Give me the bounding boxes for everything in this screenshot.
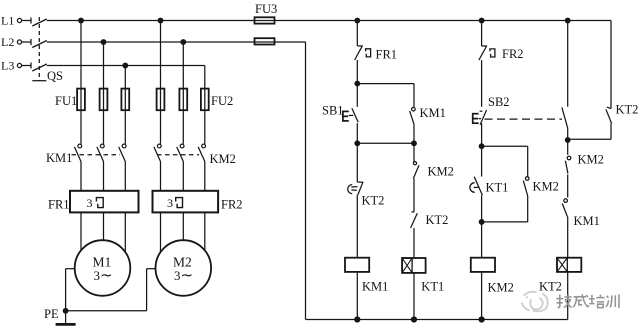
- node L3-M1: [123, 63, 128, 68]
- wire M1 phase U lower: [80, 213, 82, 254]
- svg-text:KM1: KM1: [420, 106, 446, 120]
- terminal L2: [1, 35, 22, 49]
- wire L1 lead: [22, 20, 31, 22]
- node rail KM1: [355, 317, 360, 322]
- svg-text:KM1: KM1: [362, 280, 388, 294]
- wire coil KT1 to rail: [413, 273, 415, 320]
- wire M2 phase U lower: [160, 213, 162, 254]
- svg-text:FR2: FR2: [221, 198, 243, 212]
- contactor contact KM2 branch2: [413, 162, 419, 179]
- svg-text:3∼: 3∼: [94, 268, 113, 284]
- wire SB2 to node C: [481, 123, 483, 146]
- wire M1 phase V upper: [103, 42, 105, 144]
- contactor KM2 main link: [157, 154, 199, 156]
- wire L2 lead: [22, 41, 31, 43]
- wire branch1 upper: [356, 21, 358, 46]
- contactor KM1 main pole 2: [97, 144, 104, 161]
- contactor KM2 main pole 2: [177, 144, 184, 161]
- node L1-M2: [158, 18, 163, 23]
- timer contact KT2 branch5: [606, 107, 612, 123]
- contactor contact KM1 aux: [410, 107, 416, 124]
- wire branch3 upper: [481, 21, 483, 47]
- svg-text:PE: PE: [44, 307, 59, 321]
- svg-text:SB1: SB1: [322, 104, 344, 118]
- relay contact FR2 NC: [479, 46, 495, 60]
- wire M2 phase W upper: [204, 66, 206, 144]
- svg-text:KM1: KM1: [46, 151, 72, 165]
- coil KT1: [402, 258, 426, 273]
- svg-text:FR1: FR1: [48, 198, 70, 212]
- svg-text:FU3: FU3: [255, 2, 277, 16]
- coil KT2: [557, 258, 581, 272]
- wire branch5 upper: [610, 21, 612, 109]
- fuse FU3 pole 1: [255, 17, 275, 23]
- wire N4 to KM2: [567, 140, 569, 155]
- motor M1: [75, 240, 131, 296]
- svg-text:L2: L2: [1, 35, 14, 49]
- node L2-M2: [181, 40, 186, 45]
- wire KM2 to KM1 branch4: [567, 175, 569, 198]
- motor M2: [156, 240, 212, 296]
- pushbutton SB2 linked contact: [562, 107, 568, 128]
- wire branch4 upper: [567, 21, 569, 107]
- wire node C down: [481, 146, 483, 176]
- switch QS pole 3: [31, 63, 47, 72]
- wire KM1 to coil KT2: [567, 217, 569, 258]
- svg-text:3: 3: [87, 196, 93, 210]
- contactor contact KM2 parallel: [523, 177, 529, 196]
- wire PE bus: [66, 269, 156, 311]
- wire M1 phase V lower: [103, 213, 105, 244]
- wire M2 phase V lower: [182, 213, 184, 244]
- svg-text:KT1: KT1: [486, 181, 509, 195]
- svg-text:KT2: KT2: [539, 280, 562, 294]
- contactor KM2 main pole 3: [198, 144, 205, 161]
- wire KM1 aux to node: [413, 124, 415, 143]
- wire SB1 to node B: [356, 123, 358, 143]
- ground PE: [56, 323, 76, 326]
- fuse FU1 pole 1: [77, 89, 85, 111]
- node C: [479, 144, 484, 149]
- wire KM2 parallel up: [527, 146, 529, 176]
- wire M1 phase W lower: [124, 213, 126, 254]
- wire L2 drop to control rail: [305, 42, 307, 320]
- node A: [355, 81, 360, 86]
- svg-text:KM1: KM1: [574, 214, 600, 228]
- node D: [479, 220, 484, 225]
- fuse FU1 pole 2: [100, 89, 108, 111]
- contactor KM1 main link: [72, 154, 121, 156]
- wire branch5 lower: [568, 123, 611, 139]
- svg-text:3: 3: [167, 196, 173, 210]
- svg-text:KM2: KM2: [210, 152, 236, 166]
- node PE: [63, 309, 68, 314]
- wire M1 phase U mid: [80, 162, 82, 192]
- svg-text:KM2: KM2: [488, 281, 514, 295]
- svg-text:L3: L3: [1, 59, 14, 73]
- relay FR2 heater: [153, 191, 219, 213]
- wire M2 phase U upper: [160, 21, 162, 144]
- svg-text:KM2: KM2: [428, 165, 454, 179]
- watermark text: [556, 294, 619, 308]
- wire node B down: [356, 143, 358, 182]
- svg-text:KT1: KT1: [421, 280, 444, 294]
- wire branch2 to KM2: [413, 143, 415, 161]
- wire L2 rail: [47, 41, 306, 43]
- node L2-M1: [101, 40, 106, 45]
- wire coil KT2 to rail: [567, 272, 569, 320]
- wire linked contact to node N4: [567, 128, 569, 140]
- timer contact KT1 delayed NO: [470, 177, 483, 196]
- svg-text:KT2: KT2: [362, 194, 385, 208]
- svg-text:KT2: KT2: [616, 103, 639, 117]
- wire node A to branch2: [357, 83, 414, 85]
- wire KM2 to KT2: [413, 179, 415, 212]
- relay contact FR1 NC: [355, 46, 371, 60]
- coil KM2: [471, 258, 495, 272]
- fuse FU3 pole 2: [255, 38, 275, 44]
- node rail KM2: [479, 317, 484, 322]
- contactor KM1 main pole 1: [74, 144, 81, 161]
- wire coil KM2 to rail: [481, 272, 483, 320]
- svg-text:FR1: FR1: [376, 48, 398, 62]
- svg-text:3∼: 3∼: [174, 268, 193, 284]
- timer contact KT2 branch2: [411, 212, 418, 228]
- wire L3 lead: [22, 65, 31, 67]
- switch QS link: [32, 17, 46, 81]
- svg-text:FR2: FR2: [502, 47, 524, 61]
- node B: [355, 141, 360, 146]
- wire node D to coil KM2: [481, 222, 483, 258]
- svg-text:KM2: KM2: [578, 153, 604, 167]
- wire node C right: [482, 145, 528, 147]
- wire M1 phase W upper: [124, 66, 126, 144]
- svg-text:QS: QS: [47, 69, 63, 83]
- node branch3 top: [479, 18, 484, 23]
- fuse FU1 pole 3: [121, 89, 129, 111]
- wire M1 phase W mid: [124, 162, 126, 192]
- terminal L1: [1, 14, 22, 28]
- contactor KM1 main pole 3: [119, 144, 126, 161]
- node L1-M1: [79, 18, 84, 23]
- watermark logo: [522, 292, 548, 312]
- wire M1 phase U upper: [80, 21, 82, 144]
- wire L3 rail: [47, 65, 205, 67]
- terminal L3: [1, 59, 22, 73]
- wire M2 phase U mid: [160, 162, 162, 192]
- svg-text:FU1: FU1: [55, 94, 77, 108]
- fuse FU2 pole 1: [157, 89, 165, 111]
- wire branch2 upper: [413, 84, 415, 107]
- svg-text:KM2: KM2: [533, 180, 559, 194]
- wire coil KM1 to rail: [356, 272, 358, 320]
- node branch1 top: [355, 18, 360, 23]
- wire KT2 to coil KT1: [413, 228, 415, 258]
- wire KT2 to coil KM1: [356, 195, 358, 258]
- fuse FU2 pole 2: [179, 89, 187, 111]
- contactor contact KM1 branch4: [562, 199, 567, 217]
- wire KM2 parallel down: [482, 196, 528, 222]
- svg-text:KT2: KT2: [426, 213, 449, 227]
- switch QS pole 2: [31, 39, 47, 48]
- wire L1 rail: [47, 20, 611, 22]
- pushbutton SB2: [472, 110, 487, 125]
- wire branch1 to node A: [356, 60, 358, 84]
- relay FR1 heater: [70, 191, 139, 213]
- switch QS pole 1: [31, 18, 47, 27]
- wire KT1 to node D: [481, 195, 483, 222]
- wire M1 phase V mid: [103, 162, 105, 192]
- wire node B to branch2: [357, 142, 414, 144]
- pushbutton SB1: [342, 108, 358, 122]
- svg-text:L1: L1: [1, 14, 14, 28]
- wire node A to SB1: [356, 84, 358, 107]
- wire M2 phase V mid: [182, 162, 184, 192]
- wire M1 to PE: [66, 269, 75, 325]
- svg-text:SB2: SB2: [488, 95, 510, 109]
- wire M2 phase W mid: [204, 162, 206, 192]
- wire control bottom rail: [306, 319, 568, 321]
- wire M2 phase W lower: [204, 213, 206, 254]
- node rail KT1: [412, 317, 417, 322]
- timer contact KT2 delayed NC: [348, 182, 364, 195]
- svg-text:FU2: FU2: [211, 94, 233, 108]
- fuse FU2 pole 3: [201, 89, 209, 111]
- wire M2 phase V upper: [182, 42, 184, 144]
- contactor contact KM2 branch4: [565, 156, 570, 173]
- wire branch3 to SB2: [481, 60, 483, 107]
- contactor KM2 main pole 1: [154, 144, 161, 161]
- node branch2 seal: [412, 141, 417, 146]
- link SB2 dashed: [485, 118, 563, 120]
- node branch4 top: [565, 18, 570, 23]
- node N4: [565, 138, 570, 143]
- coil KM1: [345, 258, 369, 272]
